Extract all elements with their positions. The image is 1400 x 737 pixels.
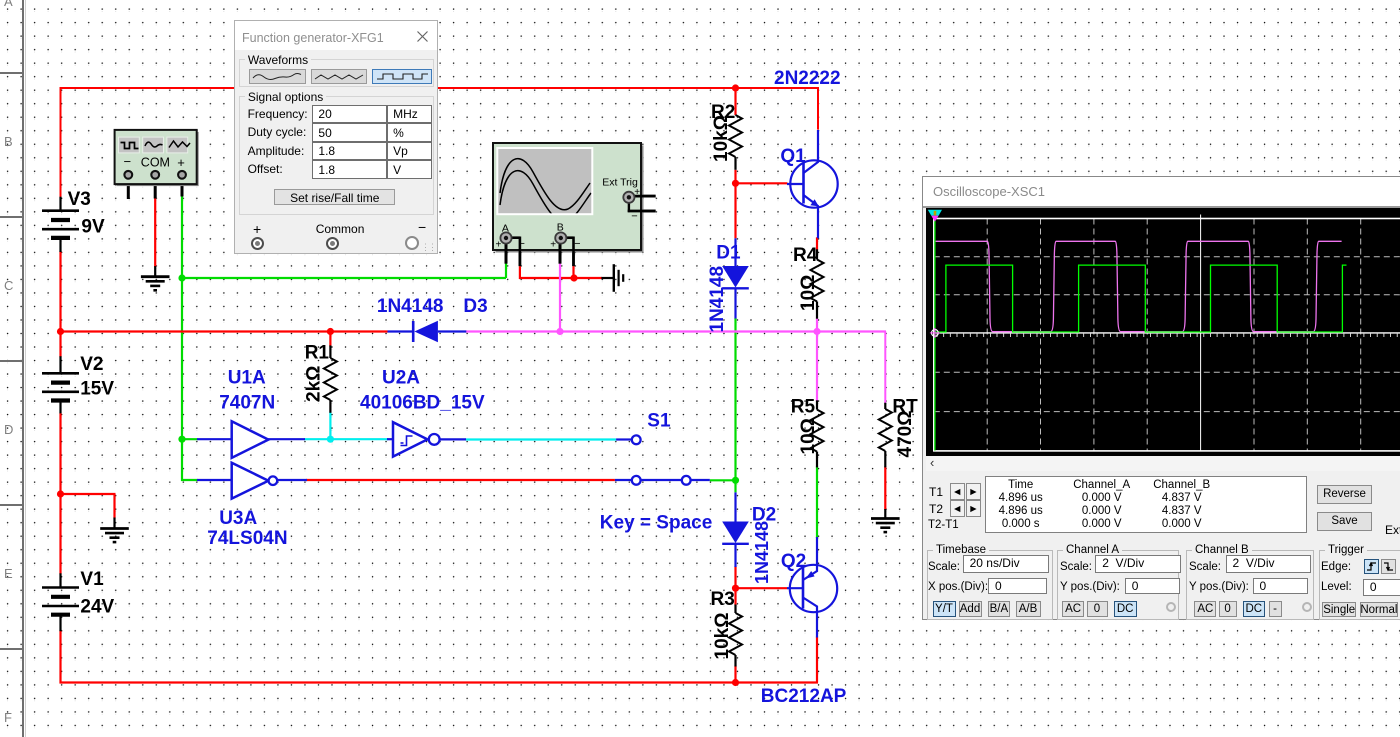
svg-text:74LS04N: 74LS04N — [207, 528, 287, 549]
svg-text:V3: V3 — [68, 189, 91, 210]
svg-text:470Ω: 470Ω — [895, 411, 916, 458]
svg-text:1N4148: 1N4148 — [377, 296, 444, 317]
svg-text:Key = Space: Key = Space — [600, 512, 713, 533]
svg-text:2kΩ: 2kΩ — [304, 366, 325, 402]
svg-text:Q1: Q1 — [780, 146, 806, 167]
svg-text:Ext Trig: Ext Trig — [602, 177, 638, 189]
svg-text:10Ω: 10Ω — [798, 275, 819, 311]
svg-text:V2: V2 — [80, 354, 103, 375]
svg-text:D3: D3 — [463, 296, 487, 317]
svg-text:+: + — [634, 187, 640, 198]
svg-text:U1A: U1A — [228, 367, 266, 388]
svg-text:U2A: U2A — [382, 367, 420, 388]
svg-text:1N4148: 1N4148 — [752, 521, 772, 584]
svg-text:40106BD_15V: 40106BD_15V — [360, 393, 485, 414]
svg-text:−: − — [574, 238, 580, 250]
svg-text:V1: V1 — [80, 569, 104, 590]
svg-text:−: − — [631, 211, 637, 223]
svg-text:2N2222: 2N2222 — [774, 68, 841, 89]
svg-text:10kΩ: 10kΩ — [711, 115, 732, 162]
svg-text:BC212AP: BC212AP — [761, 686, 847, 707]
svg-text:+: + — [177, 155, 185, 170]
svg-text:9V: 9V — [81, 217, 105, 238]
svg-text:R1: R1 — [305, 343, 330, 364]
svg-text:15V: 15V — [80, 379, 114, 400]
svg-text:24V: 24V — [80, 597, 114, 618]
svg-text:COM: COM — [141, 156, 170, 170]
svg-text:−: − — [124, 154, 132, 169]
svg-text:R4: R4 — [793, 245, 818, 266]
svg-text:+: + — [496, 240, 502, 251]
svg-text:10kΩ: 10kΩ — [712, 613, 733, 660]
svg-text:R3: R3 — [711, 589, 735, 610]
svg-text:S1: S1 — [647, 411, 671, 432]
svg-text:U3A: U3A — [219, 508, 257, 529]
svg-text:1N4148: 1N4148 — [707, 266, 728, 333]
svg-text:−: − — [519, 238, 525, 250]
svg-text:10Ω: 10Ω — [798, 418, 819, 454]
svg-text:D1: D1 — [716, 242, 741, 263]
svg-text:R5: R5 — [791, 397, 816, 418]
svg-text:Q2: Q2 — [781, 551, 806, 572]
svg-text:7407N: 7407N — [219, 393, 275, 414]
svg-text:+: + — [550, 240, 556, 251]
